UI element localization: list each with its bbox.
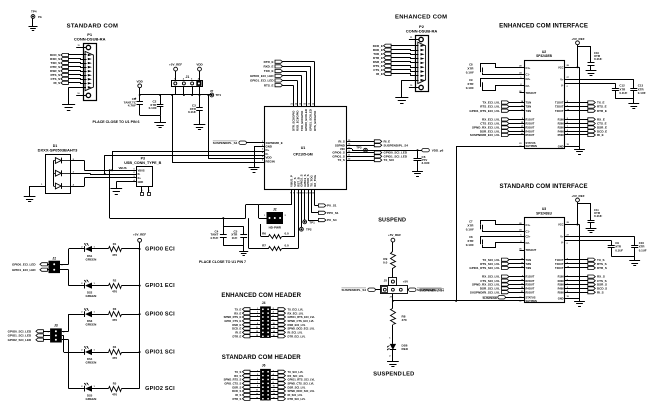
wire [62, 340, 69, 389]
svg-text:TXD_E: TXD_E [264, 69, 274, 73]
note PLACE CLOSE TO U1 PIN 7 [199, 260, 246, 264]
U2 shutdown pins [519, 141, 537, 148]
capacitor C7 XTR 0.1UF [466, 220, 531, 234]
net flag SPND_RX_SCI_LVL [472, 283, 535, 287]
net flag TX_E [555, 101, 605, 105]
svg-text:ENHANCED COM HEADER: ENHANCED COM HEADER [221, 292, 301, 299]
svg-text:T3IN: T3IN [526, 266, 532, 270]
svg-text:6: 6 [273, 316, 274, 318]
net flag SUSPEND/PL_S4 left [341, 288, 380, 292]
net flag GPIO1_ECI_LED [250, 79, 283, 83]
section title SUSPEND LED [373, 372, 414, 378]
svg-text:+5V: +5V [403, 280, 408, 284]
net flag GPIO0_ECI_LED [12, 262, 49, 266]
ground [154, 123, 166, 128]
section title STANDARD COM [67, 24, 119, 30]
svg-text:C1+: C1+ [526, 223, 531, 227]
wire [283, 81, 298, 107]
svg-text:GPIO1_ECI_LED: GPIO1_ECI_LED [12, 268, 36, 272]
svg-text:GPIO1_RTS_SCI_LVL: GPIO1_RTS_SCI_LVL [288, 378, 316, 382]
svg-text:R2OUT: R2OUT [526, 279, 535, 283]
svg-text:T1IN: T1IN [526, 101, 532, 105]
svg-text:DSR_E: DSR_E [232, 323, 241, 327]
svg-text:15: 15 [256, 397, 258, 399]
svg-text:DTR_S: DTR_S [597, 266, 607, 270]
net flag SPND_RX_ECI_LVL [472, 126, 535, 130]
net flag SUSPND/RI_ECI_LVL [470, 133, 535, 137]
svg-text:GPIO1_RTS_ECI_LVL: GPIO1_RTS_ECI_LVL [288, 315, 316, 319]
net flag DSR_S [558, 283, 607, 287]
svg-text:RI_S: RI_S [597, 290, 604, 294]
ground [24, 197, 36, 202]
svg-text:R4IN: R4IN [558, 287, 564, 291]
wire [392, 74, 419, 76]
svg-text:J4: J4 [262, 301, 266, 305]
net flag GPIO1_ECI_LED [12, 268, 49, 272]
net flag SPND_RTS_S [224, 378, 260, 382]
svg-text:2: 2 [273, 370, 274, 372]
section title ENHANCED COM INTERFACE [499, 22, 588, 29]
svg-text:VDD_p6: VDD_p6 [432, 148, 444, 152]
svg-text:470: 470 [112, 290, 117, 294]
svg-text:GREEN: GREEN [86, 397, 97, 401]
svg-text:DXXX-SP0503BAHT3: DXXX-SP0503BAHT3 [38, 148, 79, 153]
svg-text:+5V_REF: +5V_REF [571, 194, 584, 198]
net flag DSR_E [558, 126, 607, 130]
svg-text:U1: U1 [301, 146, 306, 150]
svg-text:SPND_CTS_SCI_LVL: SPND_CTS_SCI_LVL [288, 381, 315, 385]
svg-text:GPIO1_RTS_ECI_LVL: GPIO1_RTS_ECI_LVL [469, 109, 500, 113]
net flag RTS_E [264, 83, 283, 87]
resistor R2 470 [91, 279, 140, 294]
svg-text:470: 470 [402, 318, 407, 322]
net flag RX_E [558, 118, 605, 122]
net flag DSR_ECI_LVL [271, 323, 306, 327]
svg-text:STANDARD COM INTERFACE: STANDARD COM INTERFACE [500, 183, 588, 190]
net flag PU_S4 [308, 190, 337, 223]
net flag CTS_ECI_LVL [480, 122, 534, 126]
svg-text:8: 8 [273, 319, 274, 321]
svg-text:GPIO_CTS_S: GPIO_CTS_S [224, 381, 241, 385]
resistor R9 0.0 [383, 252, 395, 278]
IC U1 CP2105-GM [265, 107, 347, 190]
net flag RXD_E [263, 65, 282, 69]
svg-text:GPIO0 SCI: GPIO0 SCI [145, 311, 175, 317]
svg-text:STANDARD COM: STANDARD COM [67, 24, 119, 30]
svg-text:TX_ECI_LVL: TX_ECI_LVL [288, 307, 304, 311]
svg-text:PU_S4: PU_S4 [327, 218, 337, 222]
svg-text:C1+: C1+ [526, 66, 531, 70]
net flag TX_ECI_LVL [271, 307, 304, 311]
svg-text:GPIO0 ECI: GPIO0 ECI [145, 246, 175, 252]
svg-text:J2: J2 [52, 256, 56, 260]
svg-text:15: 15 [256, 335, 258, 337]
capacitor C6 Y5V 3.3UF [414, 150, 430, 171]
label GPIO1 ECI [145, 283, 175, 289]
svg-text:DCD_E: DCD_E [232, 327, 241, 331]
U1 top pin names [290, 104, 316, 132]
wire [69, 83, 87, 84]
svg-text:GPIO1 SCI: GPIO1 SCI [145, 349, 175, 355]
U1 bottom pin names [290, 174, 317, 194]
svg-text:TX_E: TX_E [235, 307, 242, 311]
svg-text:7: 7 [257, 319, 258, 321]
svg-text:T2IN: T2IN [526, 105, 532, 109]
IC U3 SP3243EU [525, 207, 565, 302]
svg-text:12: 12 [273, 327, 275, 329]
section title ENHANCED COM [395, 14, 447, 20]
svg-text:10: 10 [273, 386, 275, 388]
svg-text:R5OUT: R5OUT [526, 290, 535, 294]
svg-text:R3OUT: R3OUT [526, 283, 535, 287]
net flag RXD_E [373, 48, 391, 52]
wire USB GND [116, 182, 136, 190]
svg-text:GREEN: GREEN [86, 257, 97, 261]
LED DS4 GREEN [69, 346, 97, 364]
svg-text:R2: R2 [113, 279, 117, 283]
svg-text:470: 470 [112, 253, 117, 257]
svg-text:0.0: 0.0 [285, 231, 290, 235]
net flag DSR_SCI_LVL [271, 385, 306, 389]
net flag TX_E [235, 307, 261, 311]
svg-text:CONN-DSUB-RA: CONN-DSUB-RA [74, 37, 106, 42]
svg-text:SPND_RTS_S: SPND_RTS_S [224, 378, 242, 382]
wire [69, 79, 87, 80]
svg-text:SPND_RTS_E: SPND_RTS_E [224, 315, 242, 319]
header J4 [260, 301, 271, 338]
net flag RTS_E [373, 64, 391, 68]
label GPIO1 SCI [145, 349, 175, 355]
net flag RXD_S [50, 57, 68, 61]
svg-text:12: 12 [273, 390, 275, 392]
svg-text:SUSPEND/PL_S4: SUSPEND/PL_S4 [384, 143, 409, 147]
svg-text:GREEN: GREEN [86, 360, 97, 364]
svg-text:0.1UF: 0.1UF [639, 248, 647, 252]
svg-text:11: 11 [256, 327, 258, 329]
svg-text:V+: V+ [560, 77, 564, 81]
wire VCC [558, 222, 579, 227]
net flag CTS_E [558, 122, 607, 126]
svg-text:VBUS: VBUS [138, 169, 145, 172]
svg-text:3.3UF: 3.3UF [422, 161, 430, 165]
svg-text:470: 470 [112, 393, 117, 397]
capacitor C8 XTR 0.1UF [466, 234, 531, 247]
svg-text:2: 2 [273, 308, 274, 310]
svg-text:PLACE CLOSE TO U1 PIN 6: PLACE CLOSE TO U1 PIN 6 [93, 120, 140, 124]
svg-text:R5: R5 [113, 382, 117, 386]
svg-text:RI_ECI_LVL: RI_ECI_LVL [288, 331, 303, 335]
capacitor C4 TANT 4.7UF [210, 217, 244, 246]
capacitor C8 XTR 0.1UF [466, 63, 531, 77]
svg-text:C1-: C1- [526, 73, 530, 77]
svg-text:GND: GND [558, 144, 564, 148]
net flag RI_S [235, 393, 260, 397]
svg-text:GREEN: GREEN [86, 323, 97, 327]
svg-text:0.1UF: 0.1UF [466, 71, 474, 75]
svg-text:TX_S: TX_S [235, 370, 242, 374]
svg-text:C2+: C2+ [526, 234, 531, 238]
svg-text:13: 13 [256, 393, 258, 395]
svg-text:ENHANCED COM: ENHANCED COM [395, 14, 447, 20]
svg-text:4.7UF: 4.7UF [210, 236, 218, 240]
net flag TX_SCI_LVL [482, 257, 531, 261]
net flag RTS_S [555, 262, 607, 266]
wire [283, 66, 311, 106]
net flag DSR_ECI_LVL [480, 129, 535, 133]
wire [392, 45, 419, 47]
wire P2 pin5 GND [402, 80, 419, 97]
wire [392, 66, 419, 68]
svg-text:R3OUT: R3OUT [526, 126, 535, 130]
svg-text:T2OUT: T2OUT [555, 262, 564, 266]
LED DS2 GREEN [69, 280, 97, 298]
net flag CTS_S [558, 279, 607, 283]
wire D1 pin4 jog to D+ [71, 178, 85, 187]
wire V- [561, 240, 611, 246]
svg-text:GPIO1_ECI_LED: GPIO1_ECI_LED [250, 79, 274, 83]
svg-text:SUSPND/RI_SCI_LVL: SUSPND/RI_SCI_LVL [470, 290, 500, 294]
resistor R3 470 [91, 307, 140, 322]
label GPIO0 ECI [145, 246, 175, 252]
svg-text:DTR_E: DTR_E [597, 109, 607, 113]
net flag TX_S [555, 258, 605, 262]
svg-text:T3OUT: T3OUT [555, 266, 564, 270]
svg-text:16: 16 [273, 335, 275, 337]
net flag SUSPEND at U3 [482, 296, 524, 300]
svg-text:SUSPEND: SUSPEND [482, 296, 497, 300]
svg-text:SUSPEND/PL_S4: SUSPEND/PL_S4 [341, 288, 366, 292]
U1 right pin names [332, 140, 351, 163]
ground [29, 27, 38, 31]
svg-text:TX_S: TX_S [338, 158, 345, 162]
net flag TXD_E [373, 52, 391, 56]
ground [574, 302, 585, 307]
svg-text:RI_E: RI_E [235, 331, 241, 335]
net flag RX_ECI_LVL [482, 118, 535, 122]
wire J1 pins to rail [176, 87, 200, 96]
net flag DCD_S [558, 287, 608, 291]
net flag DSR_SCI_LVL [480, 287, 535, 291]
wire [283, 85, 294, 106]
net flag RX_ECI_LVL [271, 311, 304, 316]
svg-text:0.1UF: 0.1UF [619, 91, 627, 95]
svg-text:3: 3 [257, 312, 258, 314]
wire [69, 54, 87, 56]
wire VCC rail to GND pin [558, 67, 580, 149]
svg-text:T2IN: T2IN [526, 262, 532, 266]
svg-text:C2+: C2+ [526, 77, 531, 81]
wire [392, 294, 394, 309]
svg-text:USB_CONN_TYPE_B: USB_CONN_TYPE_B [124, 161, 161, 165]
svg-text:+5V_REF: +5V_REF [133, 232, 146, 236]
wire D1 pin2 jog to VBUS [71, 161, 110, 171]
svg-text:RED: RED [402, 347, 409, 351]
U1 invalid pin [519, 248, 536, 252]
net flag DCD_E [373, 44, 391, 48]
svg-text:R1IN: R1IN [558, 275, 564, 279]
svg-text:C2-: C2- [526, 241, 530, 245]
net flag DCD_S [50, 53, 68, 57]
svg-text:0.1UF: 0.1UF [188, 110, 196, 114]
wire [32, 19, 34, 28]
wire [60, 270, 69, 286]
svg-text:0.1UF: 0.1UF [594, 214, 602, 218]
svg-text:P3: P3 [141, 157, 145, 161]
svg-text:R1OUT: R1OUT [526, 118, 535, 122]
svg-text:VCC: VCC [558, 65, 564, 69]
label GPIO2 SCI [145, 386, 175, 392]
svg-text:GPIO1 ECI: GPIO1 ECI [145, 283, 175, 289]
wire [392, 58, 419, 59]
wire [60, 249, 69, 265]
svg-text:STATUS: STATUS [526, 295, 536, 299]
svg-text:5: 5 [257, 378, 258, 380]
net flag RI_S [558, 290, 604, 294]
power symbol +5V_REF [571, 37, 584, 68]
svg-text:6: 6 [273, 378, 274, 380]
svg-text:TP4: TP4 [31, 10, 37, 14]
net flag TX_SCI [347, 158, 395, 162]
svg-text:9: 9 [257, 323, 258, 325]
svg-text:TRSOUT: TRSOUT [526, 91, 537, 95]
wire [392, 54, 419, 55]
svg-text:R4IN: R4IN [558, 129, 564, 133]
svg-text:DTR_E: DTR_E [232, 334, 241, 338]
svg-text:PG: PG [38, 15, 42, 19]
wire [69, 59, 87, 60]
svg-text:0.1UF: 0.1UF [466, 243, 474, 247]
ground [239, 252, 248, 256]
wire V+ [560, 77, 634, 89]
wire D- up to U1 [105, 155, 265, 174]
svg-text:SP3243EU: SP3243EU [536, 211, 552, 215]
wire [62, 336, 69, 353]
net flag GPIO0_SCI_LED [8, 329, 50, 333]
svg-text:R4OUT: R4OUT [526, 129, 535, 133]
resistor R7 0.0 [257, 243, 298, 250]
net flag RX_SCI_LVL [271, 373, 304, 378]
svg-text:R2IN: R2IN [558, 122, 564, 126]
net flag GPIO1_RTS_SCI_LVL [469, 266, 531, 270]
svg-text:RX_ECI_LVL: RX_ECI_LVL [288, 311, 304, 315]
ground [586, 229, 597, 233]
svg-text:SHTDWN: SHTDWN [526, 144, 538, 148]
net flag DTR_E [373, 56, 391, 60]
net flag RI_E [235, 331, 260, 335]
svg-text:V-: V- [561, 241, 564, 245]
svg-text:GPIO1_RTS_SCI_LVL: GPIO1_RTS_SCI_LVL [469, 266, 500, 270]
svg-text:0.1UF: 0.1UF [466, 228, 474, 232]
ground [574, 150, 585, 155]
test point TP4 [31, 10, 42, 20]
resistor R4 470 [91, 345, 140, 360]
svg-text:DTR_E: DTR_E [264, 60, 274, 64]
section title STANDARD COM HEADER [222, 354, 301, 361]
net flag DTR_S [232, 397, 260, 401]
svg-text:RX_TOG: RX_TOG [313, 174, 317, 187]
net flag SPND_CTS_SCI_LVL [271, 381, 315, 385]
net flag GPIO1_RTS_ECI_LVL [271, 315, 315, 319]
svg-text:DCD_S: DCD_S [232, 389, 241, 393]
svg-text:GPIO2 SCI: GPIO2 SCI [145, 386, 175, 392]
net flag TXD_S [51, 61, 69, 65]
svg-text:0.1UF: 0.1UF [149, 106, 157, 110]
LED DS1 GREEN [69, 243, 97, 261]
svg-text:GREEN: GREEN [86, 294, 97, 298]
test point TP2 [300, 190, 312, 232]
svg-text:RX_E: RX_E [234, 311, 241, 315]
net flag RX_S [558, 275, 605, 279]
net flag RI_ECI_LVL [271, 330, 303, 335]
svg-text:PLACE CLOSE TO U1 PIN 7: PLACE CLOSE TO U1 PIN 7 [199, 260, 246, 264]
svg-text:T1OUT: T1OUT [555, 101, 564, 105]
svg-text:SP3243EB: SP3243EB [536, 54, 552, 58]
net flag RX_SCI_LVL [482, 275, 535, 279]
wire [283, 62, 315, 107]
svg-text:CP2105-GM: CP2105-GM [293, 152, 313, 156]
net flag RI_E [558, 133, 604, 137]
svg-text:TP1: TP1 [216, 93, 222, 97]
svg-text:J6: J6 [262, 364, 266, 368]
svg-text:TX_SCI: TX_SCI [384, 158, 395, 162]
svg-text:0.0: 0.0 [383, 260, 388, 264]
connector P1 CONN-DSUB-RA [74, 32, 106, 100]
svg-text:VBUS: VBUS [119, 166, 127, 170]
power symbol +5V_REF [169, 63, 182, 81]
capacitor C2 XTR 0.1UF [149, 95, 164, 115]
svg-text:7: 7 [257, 382, 258, 384]
net flag RTS_S [51, 73, 69, 77]
U1 invalid pin [519, 91, 536, 95]
power symbol +5V_REF [388, 233, 401, 252]
resistor R8 470 [389, 309, 407, 344]
net flag DTR_S [50, 65, 68, 69]
wire U2 SHDN to suspend net [456, 146, 524, 301]
svg-text:0.1UF: 0.1UF [466, 86, 474, 90]
net flag DTR_E [232, 334, 260, 338]
svg-text:R5IN: R5IN [558, 290, 564, 294]
net flag GPIO_CTS_E [224, 319, 260, 323]
capacitor C3 XTR 0.1UF [188, 95, 203, 125]
svg-text:RI_E: RI_E [376, 72, 383, 76]
svg-text:R6: R6 [262, 231, 266, 235]
resistor R5 470 [91, 382, 140, 397]
svg-text:GPIO_CTS_E: GPIO_CTS_E [224, 319, 241, 323]
net flag GPIO1_RTS_SCI_LVL [271, 378, 315, 382]
net flag SPND_DCD_ECI_LVL [271, 327, 315, 331]
net flag SPND_RTS_E [224, 315, 260, 319]
svg-text:LED: LED [403, 372, 415, 378]
svg-text:DSR_ECI_LVL: DSR_ECI_LVL [288, 323, 306, 327]
connector P3 USB_CONN_TYPE_B [124, 157, 161, 196]
svg-text:PU_S1: PU_S1 [327, 204, 337, 208]
svg-text:5: 5 [257, 316, 258, 318]
wire VDD rail [139, 94, 212, 96]
net flag RTS_E [555, 105, 607, 109]
header J6 [260, 364, 271, 401]
svg-text:11: 11 [256, 390, 258, 392]
svg-text:GND: GND [138, 181, 144, 184]
header J2 GPIO ECI [46, 256, 64, 273]
ground [62, 105, 75, 111]
wire V- [561, 83, 615, 89]
wire [261, 190, 295, 237]
capacitor C13 XTR 0.1UF [630, 84, 646, 99]
svg-text:0.1UF: 0.1UF [638, 91, 646, 95]
svg-text:R3: R3 [113, 307, 117, 311]
svg-text:SHTDWN: SHTDWN [526, 299, 538, 303]
svg-text:CONN-DSUB-RA: CONN-DSUB-RA [406, 28, 438, 33]
